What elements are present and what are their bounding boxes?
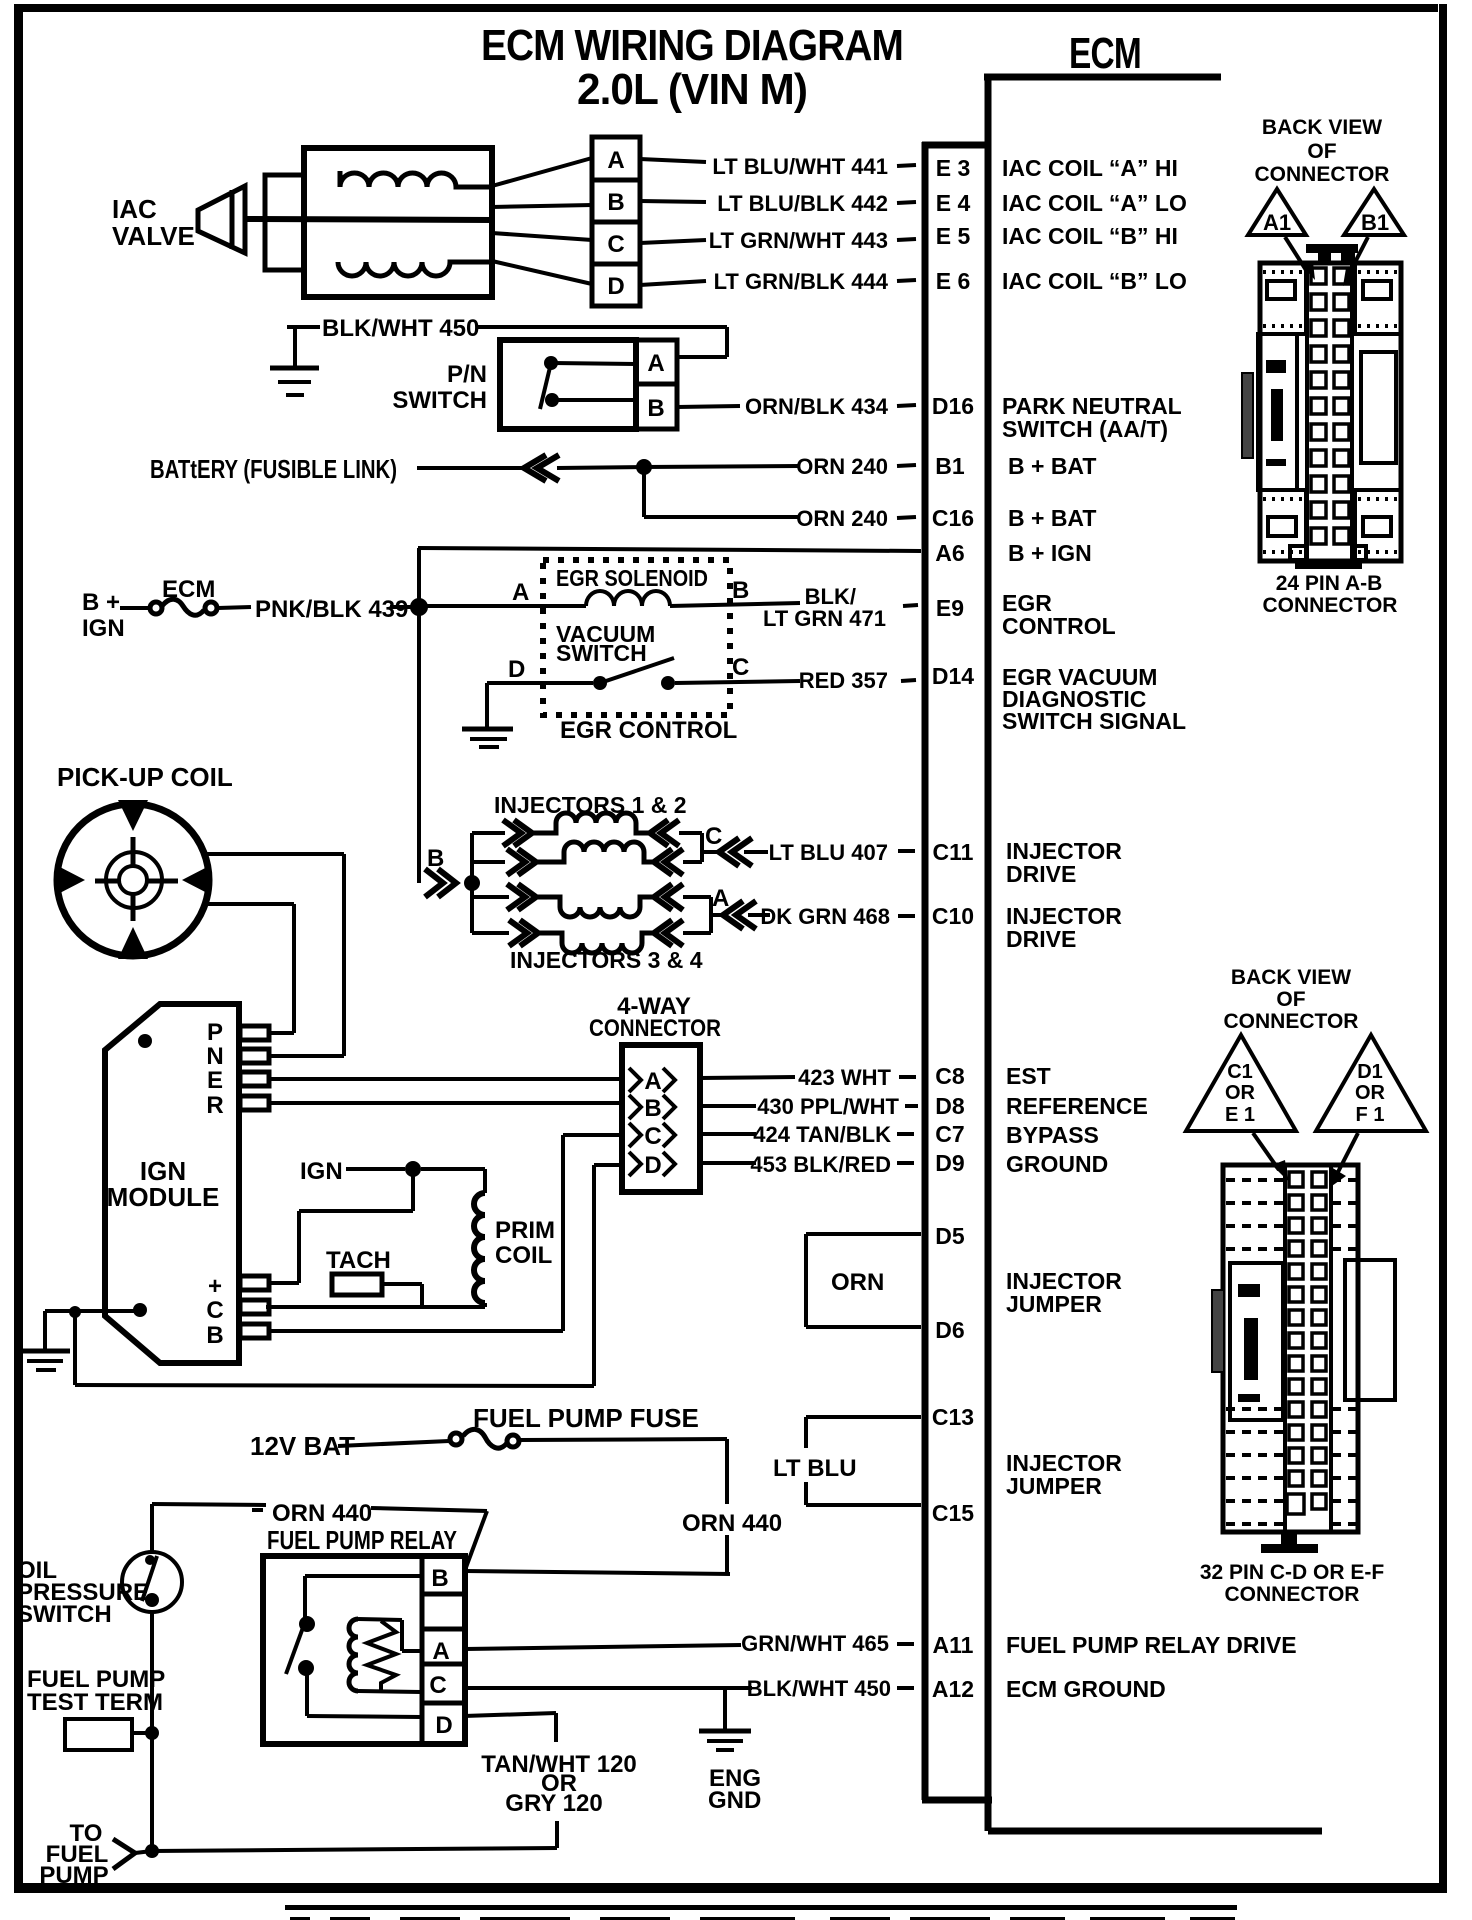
junction battery node [636, 459, 652, 475]
P/N switch lever and contacts [540, 356, 636, 409]
wire pick-up coil to IGN module P [208, 904, 294, 1033]
relay coil winding [349, 1619, 358, 1691]
fusible link chevron [524, 455, 559, 481]
svg-text:B1: B1 [1361, 210, 1389, 235]
svg-text:FUEL PUMP FUSE: FUEL PUMP FUSE [473, 1403, 699, 1433]
IGN MODULE body [105, 1004, 239, 1363]
junction injector feed node [464, 875, 480, 891]
svg-text:IAC COIL “A” LO: IAC COIL “A” LO [1002, 190, 1187, 216]
wire 453 BLK/RED to D9 [700, 1161, 756, 1165]
svg-text:C: C [607, 231, 624, 258]
IGN module pin C [240, 1300, 269, 1314]
wire ENG GND stub [723, 1688, 727, 1731]
IGN module pin + [240, 1276, 269, 1290]
EGR solenoid coil [586, 591, 670, 606]
P/N switch box [500, 340, 677, 429]
junction node PNK/BLK 439 / B+IGN [410, 598, 428, 616]
svg-text:C: C [644, 1123, 661, 1150]
svg-text:BLK/WHT 450: BLK/WHT 450 [747, 1676, 891, 1701]
svg-text:A: A [647, 350, 664, 377]
svg-text:430 PPL/WHT: 430 PPL/WHT [757, 1094, 899, 1119]
TO FUEL PUMP label [39, 1820, 108, 1889]
wire ORN injector jumper D5-D6 [806, 1234, 921, 1327]
wire 423 WHT to C8 [700, 1077, 795, 1078]
24 pin connector key tab [1306, 244, 1358, 264]
svg-text:EGR CONTROL: EGR CONTROL [560, 717, 737, 744]
svg-text:B: B [607, 189, 624, 216]
wire ORN 440 oil pressure branch [152, 1504, 487, 1570]
4-WAY CONNECTOR label [589, 993, 721, 1042]
wire ground bus to 4-way D [75, 1165, 594, 1386]
svg-text:LT BLU 407: LT BLU 407 [769, 840, 888, 865]
VACUUM SWITCH label [556, 621, 655, 666]
svg-text:A1: A1 [1263, 210, 1291, 235]
svg-text:D14: D14 [932, 663, 974, 689]
svg-text:OR: OR [1225, 1082, 1256, 1104]
svg-text:C10: C10 [932, 903, 974, 929]
IAC valve label [112, 194, 195, 251]
svg-text:CONNECTOR: CONNECTOR [1225, 1583, 1360, 1606]
junction ground node [69, 1306, 81, 1318]
svg-text:C: C [429, 1672, 446, 1699]
svg-text:IGN: IGN [300, 1158, 343, 1185]
svg-text:CONNECTOR: CONNECTOR [1255, 163, 1390, 186]
wire injector common bus [472, 833, 509, 933]
svg-text:N: N [206, 1043, 223, 1070]
svg-text:JUMPER: JUMPER [1006, 1291, 1102, 1317]
svg-text:E 3: E 3 [936, 155, 971, 181]
wire IAC body to connector pins [492, 158, 592, 284]
wire module ground [45, 1311, 138, 1351]
svg-text:BATtERY (FUSIBLE LINK): BATtERY (FUSIBLE LINK) [150, 454, 397, 484]
junction test term node [145, 1726, 159, 1740]
mounting dots IGN module [138, 1034, 152, 1048]
IAC valve cone [198, 186, 245, 253]
svg-text:SWITCH: SWITCH [17, 1601, 112, 1628]
wire 430 PPL/WHT to D8 [700, 1104, 756, 1108]
svg-text:A: A [512, 579, 529, 606]
wire B pin to 4-way C [268, 1329, 563, 1333]
wires IAC connector to ECM labels [640, 159, 706, 285]
B+ IGN source label [82, 576, 215, 642]
svg-text:EST: EST [1006, 1063, 1051, 1089]
svg-text:OF: OF [1307, 140, 1336, 163]
svg-text:B: B [732, 577, 749, 604]
node D1/F1 triangle [1316, 1035, 1426, 1131]
svg-text:D1: D1 [1357, 1061, 1383, 1083]
svg-text:C: C [206, 1297, 223, 1324]
4-way pins A B C D [629, 1068, 675, 1176]
svg-text:GRY 120: GRY 120 [505, 1790, 602, 1817]
svg-text:24 PIN A-B: 24 PIN A-B [1276, 572, 1383, 595]
svg-text:DRIVE: DRIVE [1006, 926, 1076, 952]
svg-text:LT GRN/BLK 444: LT GRN/BLK 444 [714, 269, 889, 294]
svg-text:P/N: P/N [447, 361, 487, 388]
svg-text:DK GRN 468: DK GRN 468 [760, 904, 890, 929]
svg-text:E 4: E 4 [936, 190, 971, 216]
wire RED 357 to D14 [675, 681, 800, 683]
ECM box outline [922, 74, 1322, 1831]
svg-text:2.0L (VIN M): 2.0L (VIN M) [577, 65, 807, 114]
24 PIN A-B CONNECTOR caption [1263, 572, 1398, 617]
svg-text:FUEL PUMP RELAY DRIVE: FUEL PUMP RELAY DRIVE [1006, 1632, 1297, 1658]
svg-text:B: B [427, 845, 444, 872]
wire BLK/WHT 450 with ground (P/N switch A) [287, 327, 727, 366]
IAC 4-pin connector A B C D [592, 137, 640, 306]
svg-text:OF: OF [1276, 988, 1305, 1011]
svg-text:453 BLK/RED: 453 BLK/RED [750, 1152, 891, 1177]
injector 3 [507, 884, 711, 917]
svg-text:LT GRN/WHT 443: LT GRN/WHT 443 [709, 228, 888, 253]
32 pin dashed rows upper [1226, 1180, 1356, 1249]
svg-text:B + BAT: B + BAT [1008, 453, 1096, 479]
chevron to LT BLU 407 [719, 838, 752, 866]
24 pin side detail blocks [1258, 334, 1396, 490]
svg-text:C16: C16 [932, 505, 974, 531]
wire ORN 440 to relay B [725, 1439, 729, 1575]
wire IGN branch to + pin [268, 1169, 413, 1283]
fuel pump test terminal [65, 1719, 132, 1750]
svg-text:B: B [431, 1565, 448, 1592]
relay pin letters B A C D [429, 1565, 452, 1739]
wire BLK/LT GRN 471 to E9 [670, 603, 800, 606]
svg-text:PUMP: PUMP [39, 1862, 108, 1889]
svg-text:LT BLU: LT BLU [773, 1455, 857, 1482]
fuse fuel pump [338, 1429, 727, 1448]
svg-text:A: A [607, 147, 624, 174]
IAC valve body [245, 148, 492, 297]
svg-text:CONTROL: CONTROL [1002, 613, 1116, 639]
svg-text:ORN: ORN [831, 1269, 884, 1296]
svg-text:D6: D6 [935, 1317, 964, 1343]
svg-text:E 6: E 6 [936, 268, 971, 294]
svg-text:CONNECTOR: CONNECTOR [1263, 594, 1398, 617]
injector 2 [507, 842, 702, 875]
svg-text:C1: C1 [1227, 1061, 1253, 1083]
wire BLK/WHT 450 relay C to A12 [465, 1686, 752, 1690]
24 pin terminal squares [1290, 268, 1366, 560]
svg-text:MODULE: MODULE [107, 1182, 220, 1212]
wire 424 TAN/BLK to C7 [700, 1132, 756, 1136]
svg-text:A6: A6 [935, 540, 964, 566]
wire GRN/WHT 465 relay A to A11 [465, 1645, 741, 1649]
wire injector drive 3&4 tie to C10 [711, 897, 770, 933]
svg-text:ORN/BLK 434: ORN/BLK 434 [745, 394, 889, 419]
svg-text:B: B [647, 395, 664, 422]
svg-text:D: D [508, 656, 525, 683]
title ECM WIRING DIAGRAM 2.0L (VIN M) [481, 21, 903, 114]
svg-text:BACK VIEW: BACK VIEW [1231, 966, 1351, 989]
svg-text:DRIVE: DRIVE [1006, 861, 1076, 887]
junction fuel pump node [145, 1844, 159, 1858]
svg-text:D8: D8 [935, 1093, 965, 1119]
32 pin connector body [1223, 1165, 1358, 1532]
BACK VIEW OF CONNECTOR label (32 pin) [1224, 966, 1359, 1033]
svg-text:C8: C8 [935, 1063, 965, 1089]
IGN module pin R [240, 1096, 269, 1110]
svg-text:D9: D9 [935, 1150, 964, 1176]
24 pin bottom tab [1295, 561, 1362, 569]
svg-text:E 1: E 1 [1225, 1104, 1255, 1126]
wire value labels at ECM column [709, 154, 900, 1701]
chevron to DK GRN 468 [723, 901, 756, 929]
svg-text:D5: D5 [935, 1223, 965, 1249]
arrow B1 to connector [1343, 237, 1368, 286]
svg-text:C: C [732, 654, 749, 681]
svg-text:CONNECTOR: CONNECTOR [1224, 1010, 1359, 1033]
svg-text:ORN 240: ORN 240 [796, 506, 888, 531]
32 PIN C-D OR E-F CONNECTOR caption [1200, 1561, 1385, 1606]
svg-text:B + BAT: B + BAT [1008, 505, 1096, 531]
svg-text:E9: E9 [936, 595, 964, 621]
32 pin side detail blocks [1230, 1260, 1395, 1420]
svg-text:GRN/WHT 465: GRN/WHT 465 [741, 1631, 889, 1656]
svg-text:D16: D16 [932, 393, 974, 419]
svg-text:A12: A12 [932, 1676, 974, 1702]
svg-text:BYPASS: BYPASS [1006, 1122, 1099, 1148]
svg-text:ORN 240: ORN 240 [796, 454, 888, 479]
BACK VIEW OF CONNECTOR label (24 pin) [1255, 116, 1390, 186]
svg-text:D: D [607, 273, 624, 300]
wire 4-way D to ground bus [594, 1163, 622, 1167]
4-way connector box [622, 1045, 700, 1192]
svg-text:32 PIN C-D OR E-F: 32 PIN C-D OR E-F [1200, 1561, 1385, 1584]
svg-text:B + IGN: B + IGN [1008, 540, 1092, 566]
oil pressure switch [122, 1552, 182, 1612]
arrow D1 to connector [1329, 1133, 1358, 1188]
EGR control dotted enclosure [543, 560, 730, 715]
24 pin connector body [1260, 263, 1401, 561]
wire ORN 240 branch to C16 [644, 467, 800, 517]
svg-text:SWITCH (AA/T): SWITCH (AA/T) [1002, 416, 1168, 442]
svg-text:EGR SOLENOID: EGR SOLENOID [556, 565, 708, 591]
svg-text:C7: C7 [935, 1121, 964, 1147]
svg-text:D: D [644, 1152, 661, 1179]
PRIM COIL winding [474, 1193, 485, 1303]
svg-text:B: B [644, 1095, 661, 1122]
svg-text:COIL: COIL [495, 1242, 552, 1269]
svg-text:ECM GROUND: ECM GROUND [1006, 1676, 1166, 1702]
svg-text:A: A [644, 1068, 661, 1095]
wire relay B to ORN 440 [465, 1571, 730, 1574]
svg-text:C11: C11 [933, 839, 974, 865]
injector 1 [503, 813, 702, 846]
relay coil resistor zigzag [367, 1621, 396, 1691]
svg-text:LT GRN 471: LT GRN 471 [763, 606, 886, 631]
ECM pin labels column [932, 155, 974, 1702]
svg-text:B +: B + [82, 589, 120, 616]
wire LT BLU injector jumper C13-C15 [806, 1417, 921, 1505]
svg-text:SWITCH SIGNAL: SWITCH SIGNAL [1002, 708, 1186, 734]
svg-text:P: P [207, 1019, 223, 1046]
node A1 triangle [1248, 189, 1306, 235]
svg-text:TEST TERM: TEST TERM [27, 1689, 163, 1716]
wire prim coil to C pin [266, 1303, 485, 1307]
svg-text:TACH: TACH [326, 1247, 391, 1274]
svg-text:ORN 440: ORN 440 [272, 1500, 372, 1527]
ground symbol (vacuum switch) [462, 729, 513, 747]
wire pick-up coil to IGN module N [206, 854, 344, 1056]
wire TAN/WHT 120 relay D to fuel pump [152, 1713, 557, 1851]
injector feed chevrons [425, 869, 456, 897]
32 pin latch hatch strip [1212, 1290, 1224, 1372]
svg-text:E: E [207, 1067, 223, 1094]
ECM pin descriptions [1002, 155, 1297, 1702]
relay internal switch [286, 1576, 421, 1717]
svg-text:GND: GND [708, 1787, 761, 1814]
wire ORN/BLK 434 from P/N B [677, 406, 740, 407]
svg-text:LT BLU/WHT 441: LT BLU/WHT 441 [712, 154, 888, 179]
svg-text:SWITCH: SWITCH [556, 640, 647, 666]
svg-text:OR: OR [1355, 1082, 1386, 1104]
IGN module pin E [240, 1072, 269, 1086]
injector 4 [509, 920, 711, 953]
svg-text:REFERENCE: REFERENCE [1006, 1093, 1148, 1119]
wire B+ IGN to A6 [418, 548, 921, 883]
svg-text:BACK VIEW: BACK VIEW [1262, 116, 1382, 139]
32 pin bottom tab [1261, 1532, 1318, 1553]
fuel pump relay box [263, 1556, 465, 1744]
svg-text:423 WHT: 423 WHT [798, 1065, 891, 1090]
wire injector drive 1&2 tie to C11 [702, 833, 768, 862]
svg-text:PRIM: PRIM [495, 1217, 555, 1244]
24 pin corner blocks [1260, 263, 1401, 561]
IAC coil B winding [338, 262, 492, 276]
svg-text:PNK/BLK 439: PNK/BLK 439 [255, 596, 408, 623]
ground symbol ENG GND [699, 1731, 751, 1750]
IGN module pin letters [206, 1019, 223, 1349]
svg-text:PICK-UP COIL: PICK-UP COIL [57, 762, 233, 792]
32 pin terminal squares [1287, 1172, 1326, 1514]
svg-text:ECM WIRING DIAGRAM: ECM WIRING DIAGRAM [481, 21, 903, 70]
IGN module pin P [240, 1026, 269, 1040]
node C1/E1 triangle [1186, 1035, 1296, 1131]
node B1 triangle [1344, 189, 1404, 235]
svg-text:D: D [435, 1712, 452, 1739]
wire R pin to 4-way B [269, 1101, 622, 1105]
24 pin dotted detail rows [1263, 272, 1398, 552]
to-fuel-pump chevron [113, 1839, 152, 1869]
svg-text:SWITCH: SWITCH [392, 387, 487, 414]
svg-text:GROUND: GROUND [1006, 1151, 1108, 1177]
svg-text:JUMPER: JUMPER [1006, 1473, 1102, 1499]
svg-text:424 TAN/BLK: 424 TAN/BLK [753, 1122, 891, 1147]
IAC coil A winding [340, 171, 492, 187]
OIL PRESSURE SWITCH label [17, 1557, 149, 1628]
wire E pin to 4-way A [269, 1077, 622, 1081]
wire battery to B1 with fusible-link chevron [417, 466, 800, 468]
svg-text:E 5: E 5 [936, 223, 971, 249]
svg-text:IAC COIL “B” HI: IAC COIL “B” HI [1002, 223, 1178, 249]
arrow C1 to connector [1253, 1133, 1288, 1181]
ground symbol (P/N circuit) [270, 368, 319, 395]
svg-text:A11: A11 [933, 1632, 974, 1658]
svg-text:BLK/WHT 450: BLK/WHT 450 [322, 315, 479, 342]
svg-text:R: R [206, 1092, 223, 1119]
junction IGN node [405, 1161, 421, 1177]
svg-text:RED 357: RED 357 [799, 668, 888, 693]
arrow A1 to connector [1285, 237, 1315, 280]
FUEL PUMP TEST TERM label [27, 1666, 165, 1716]
fuse ECM (fusible link squiggle) [120, 599, 251, 615]
svg-text:IGN: IGN [82, 615, 125, 642]
svg-text:C13: C13 [932, 1404, 974, 1430]
wire 4-way C to IGN B [563, 1135, 622, 1331]
wire oil pressure switch to fuel pump node [150, 1612, 154, 1851]
svg-text:FUEL PUMP RELAY: FUEL PUMP RELAY [267, 1525, 457, 1555]
svg-text:IAC COIL “A” HI: IAC COIL “A” HI [1002, 155, 1178, 181]
IGN module pin N [240, 1049, 269, 1063]
svg-text:B: B [206, 1322, 223, 1349]
svg-text:ECM: ECM [1069, 29, 1141, 78]
svg-text:ORN 440: ORN 440 [682, 1510, 782, 1537]
svg-text:A: A [712, 885, 729, 912]
relay coil wiring [358, 1619, 421, 1692]
svg-text:VALVE: VALVE [112, 221, 195, 251]
svg-text:+: + [208, 1273, 222, 1300]
pick-up coil body [56, 800, 211, 959]
svg-text:C15: C15 [932, 1500, 974, 1526]
svg-text:A: A [432, 1638, 449, 1665]
P/N switch label [392, 361, 487, 414]
ground symbol (IGN module) [20, 1351, 70, 1370]
wire TACH to C line [382, 1284, 422, 1307]
svg-text:LT BLU/BLK 442: LT BLU/BLK 442 [717, 191, 888, 216]
24 pin latch hatch strip [1242, 373, 1253, 458]
svg-text:C: C [705, 823, 722, 850]
32 pin dashed rows lower [1226, 1409, 1356, 1524]
svg-text:F 1: F 1 [1356, 1104, 1385, 1126]
wire D to ground [487, 683, 593, 729]
vacuum switch contacts and lever [593, 658, 675, 690]
dash ticks before ECM pins [897, 165, 918, 1688]
svg-text:IAC COIL “B” LO: IAC COIL “B” LO [1002, 268, 1187, 294]
svg-text:IAC: IAC [112, 194, 157, 224]
IGN module pin B [240, 1324, 269, 1338]
svg-text:CONNECTOR: CONNECTOR [589, 1015, 721, 1042]
svg-text:B1: B1 [935, 453, 965, 479]
